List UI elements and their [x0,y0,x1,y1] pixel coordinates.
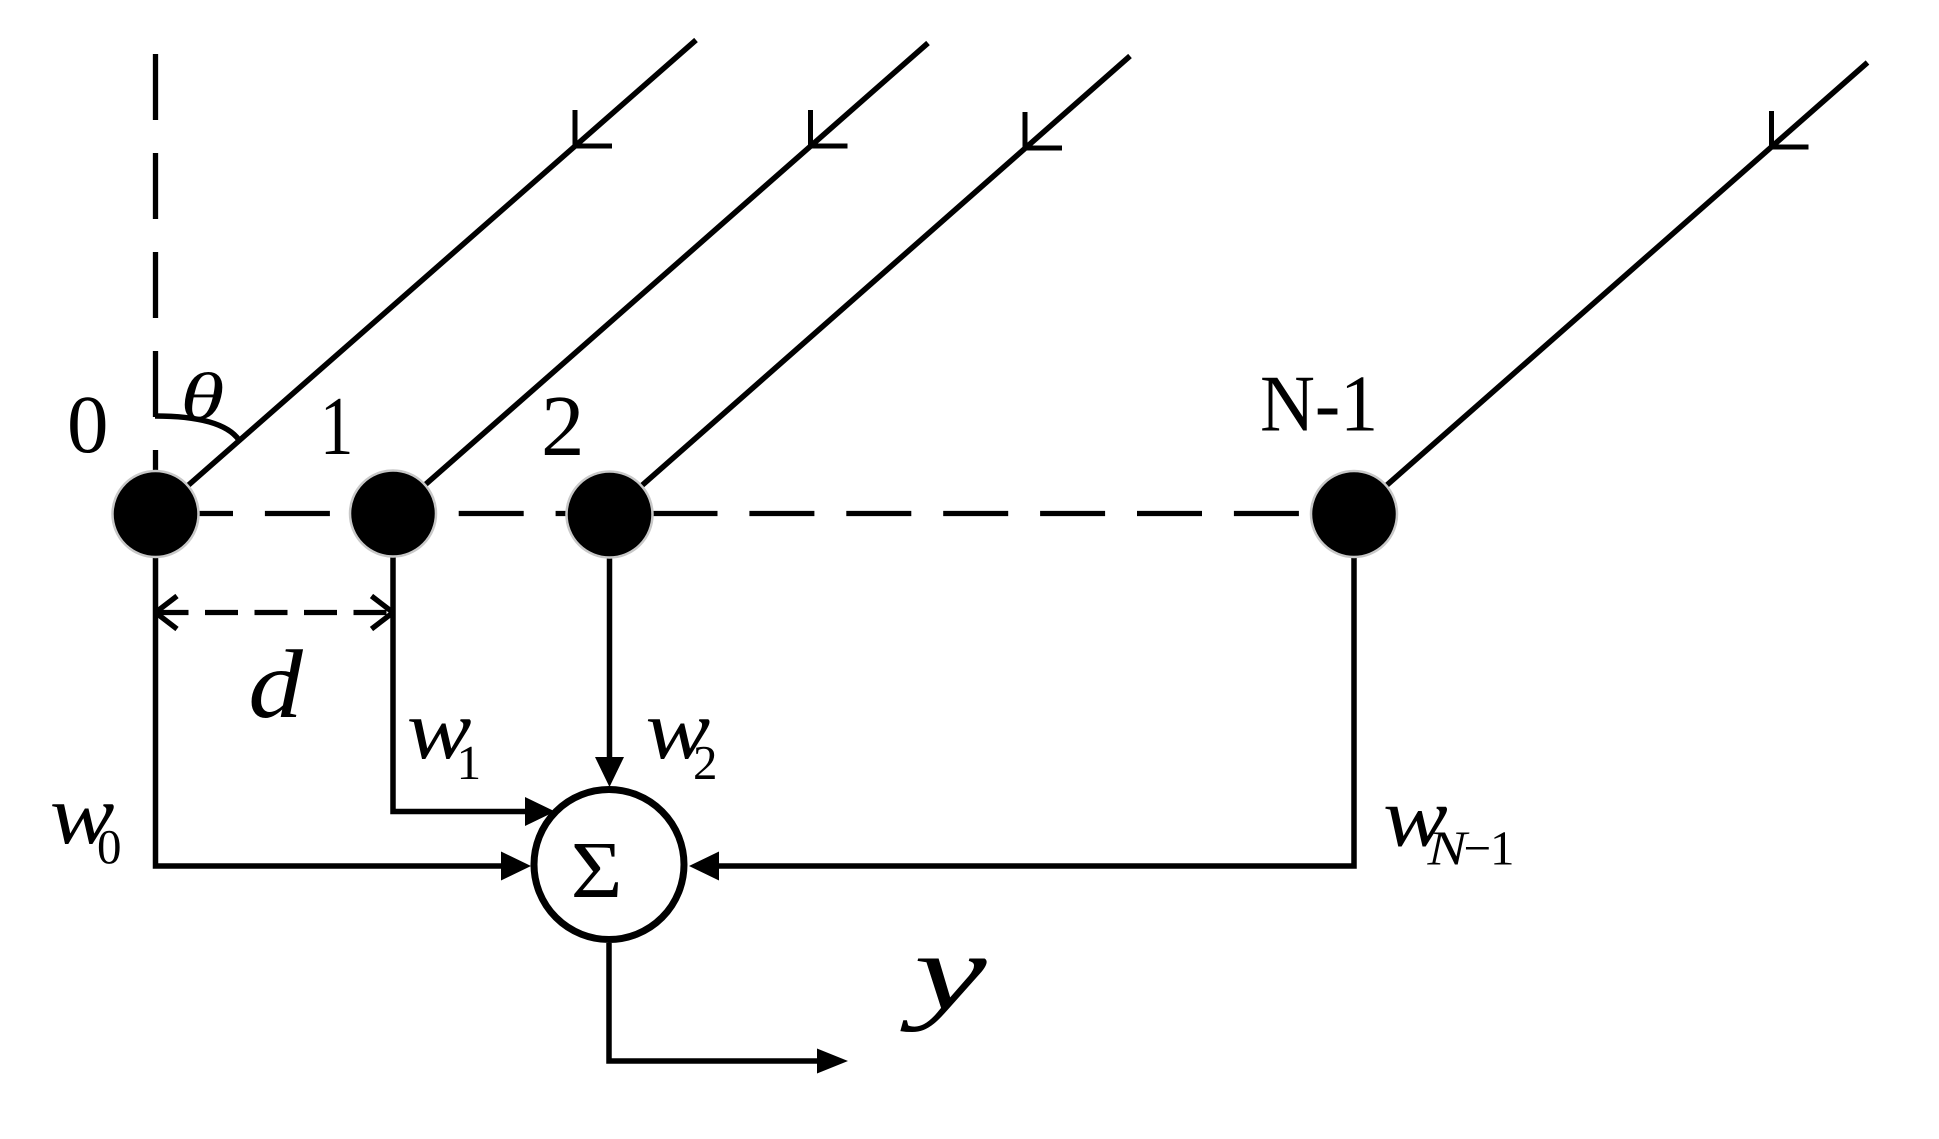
wire: wN-1 path from element N-1 to summer [712,514,1354,866]
arrowhead w2 into summer [595,757,624,787]
wire: w1 path from element 1 to summer [393,513,528,812]
svg-text:θ: θ [180,361,224,434]
angle theta arc [155,416,239,440]
svg-text:1: 1 [320,380,354,473]
dimension line d (double dashed arrow) [156,610,394,615]
svg-text:0: 0 [97,819,122,874]
element 2 (black dot) [567,472,653,558]
node: array axis (horizontal dashed line) [168,511,1354,516]
arrow mark on ray 1 [575,110,612,146]
svg-text:2: 2 [693,735,718,790]
svg-text:d: d [248,632,303,739]
wire: output y [609,943,820,1061]
arrowhead output [817,1049,848,1074]
arrow mark on ray N-1 [1772,111,1809,147]
arrow mark on ray 2 [811,110,848,146]
wire: incoming ray to element 2 [610,56,1131,514]
svg-text:N-1: N-1 [1260,359,1378,448]
svg-text:1: 1 [1490,821,1515,876]
svg-text:2: 2 [541,377,585,474]
arrowhead wN-1 into summer [689,852,719,881]
arrow mark on ray 3 [1025,112,1062,148]
element 0 (black dot) [113,471,199,557]
wire: incoming ray to element 0 [156,40,697,514]
wire: incoming ray to element N-1 [1354,63,1868,515]
element N-1 (black dot) [1311,471,1397,557]
svg-text:0: 0 [67,378,109,470]
svg-text:−: − [1464,821,1492,876]
summation node circle [534,790,684,940]
dimension arrowhead left [156,596,178,629]
svg-text:1: 1 [457,735,482,790]
svg-text:Σ: Σ [571,827,623,915]
arrowhead w0 into summer [501,852,531,881]
arrowhead w1 into summer [525,797,555,826]
wire: incoming ray to element 1 [393,43,928,513]
dimension arrowhead right [372,596,394,629]
node: boresight axis (vertical dashed line) [153,54,158,514]
element 1 (black dot) [350,471,436,557]
wire: w2 path from element 2 to summer [607,514,613,760]
wire: w0 path from element 0 to summer [156,514,507,866]
